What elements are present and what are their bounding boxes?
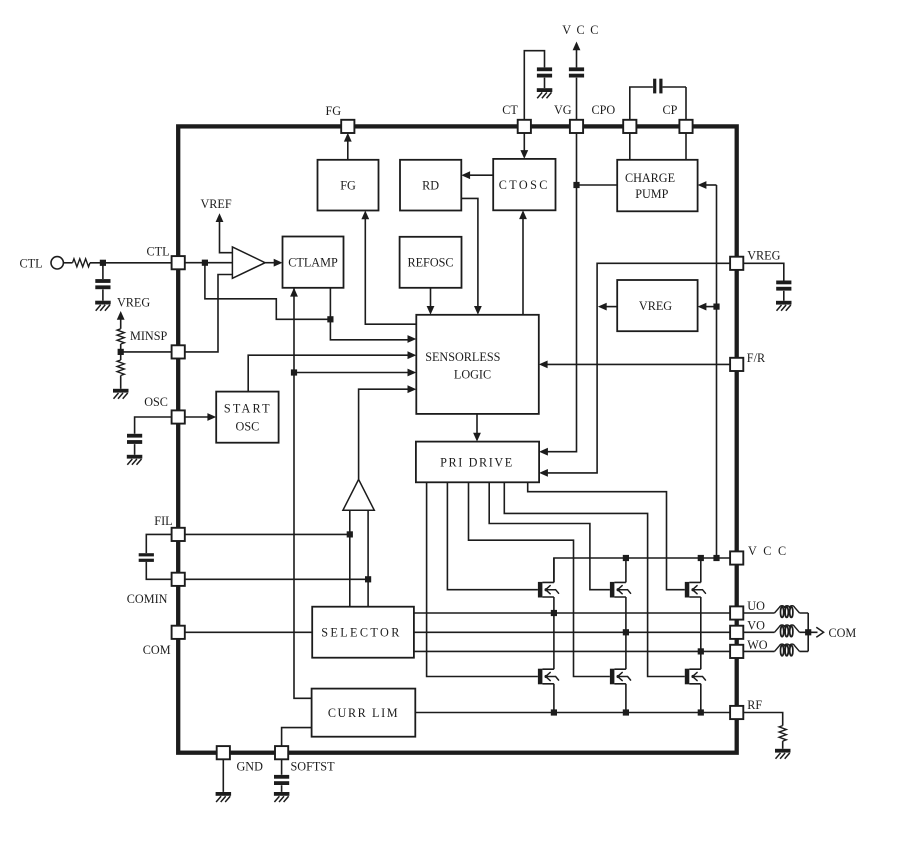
wire WO to coil <box>743 650 809 652</box>
wire CTL cap stem <box>102 263 104 279</box>
svg-text:OSC: OSC <box>236 420 260 434</box>
svg-text:FG: FG <box>340 178 356 192</box>
wire gate A (Q3 high) <box>528 482 685 589</box>
wire REFOSC to SENSORLESS <box>427 288 435 315</box>
wire riser to CHARGE PUMP <box>698 181 717 189</box>
wire CT external <box>524 51 544 121</box>
block VREG U7 <box>617 280 697 331</box>
wire Q1 to UO <box>553 597 555 613</box>
wire comparator to SENSORLESS <box>359 385 417 479</box>
junction CTL <box>202 260 208 266</box>
svg-text:WO: WO <box>747 638 768 652</box>
label MINSP <box>130 329 167 343</box>
ground OSC <box>127 455 143 465</box>
pin FG <box>341 120 354 133</box>
wire WO to Q6 <box>700 651 702 669</box>
pin VCC <box>730 551 743 564</box>
wire VREG pin net <box>539 263 730 477</box>
block CURR LIM U12 <box>312 689 416 737</box>
svg-text:V C C: V C C <box>562 23 599 37</box>
label CP <box>663 103 678 117</box>
svg-text:VG: VG <box>554 103 572 117</box>
ground GND <box>216 792 232 802</box>
block FG U1 <box>318 160 379 211</box>
wire CPO to CHARGE PUMP <box>629 133 631 160</box>
wire buffer to CTLAMP <box>265 259 282 267</box>
transistor Q2 high-side <box>610 582 631 598</box>
svg-text:SENSORLESS: SENSORLESS <box>425 350 500 364</box>
wire feedback to SENSORLESS <box>294 369 416 377</box>
pin COM <box>172 626 185 639</box>
wire Q2 to VO <box>625 597 627 632</box>
svg-text:CTL: CTL <box>147 245 170 259</box>
svg-text:CTL: CTL <box>20 257 43 271</box>
transistor Q5 low-side <box>610 669 631 685</box>
pin CT <box>518 120 531 133</box>
pin MINSP <box>172 345 185 358</box>
junction riser VCC rail <box>713 555 719 561</box>
block SENSORLESS LOGIC U8 <box>416 315 539 414</box>
wire FG to pin <box>344 133 352 160</box>
wire MINSP to buffer <box>185 275 233 352</box>
label GND <box>237 760 264 774</box>
label CPO <box>592 103 616 117</box>
wire RF res to ground <box>782 741 784 749</box>
block START OSC U9 <box>216 392 278 443</box>
label VREG left <box>117 296 150 310</box>
svg-text:MINSP: MINSP <box>130 329 167 343</box>
label COMIN <box>127 592 168 606</box>
wire SOFTST external <box>281 759 283 775</box>
svg-text:CTOSC: CTOSC <box>499 178 550 192</box>
wire Q3 to WO <box>700 597 702 651</box>
label RF <box>747 698 762 712</box>
capacitor CTL <box>95 279 110 289</box>
block CTLAMP U5 <box>283 237 344 288</box>
label CTL input <box>20 257 43 271</box>
label COM left <box>143 643 171 657</box>
label VO <box>747 619 765 633</box>
wire VG cap to pin <box>576 78 578 121</box>
wire SOFTST to CURR LIM <box>282 728 312 747</box>
junction MINSP <box>118 349 124 355</box>
transistor Q6 low-side <box>685 669 706 685</box>
svg-text:CPO: CPO <box>592 103 616 117</box>
wire VO to Q5 <box>625 632 627 669</box>
wire RD to SENSORLESS <box>461 198 482 314</box>
node COM arrow <box>816 627 823 637</box>
junction COMIN <box>365 576 371 582</box>
pin CPO <box>623 120 636 133</box>
capacitor OSC <box>127 434 142 444</box>
wire CP up <box>663 87 686 120</box>
power VREG arrow MINSP <box>117 311 125 329</box>
wire CTL cap to ground <box>102 289 104 300</box>
wire RF rail <box>415 712 730 714</box>
wire CTL resistor to pin <box>90 262 172 264</box>
power VREF arrow <box>216 213 233 253</box>
label WO <box>747 638 768 652</box>
svg-text:PUMP: PUMP <box>635 187 668 201</box>
svg-text:VO: VO <box>747 619 765 633</box>
svg-text:SOFTST: SOFTST <box>291 760 336 774</box>
label VCC top <box>562 23 599 37</box>
wire GND external <box>222 759 224 792</box>
wire UO to Q4 <box>553 613 555 669</box>
svg-text:CURR LIM: CURR LIM <box>328 706 399 720</box>
resistor CTL <box>73 259 91 267</box>
label VREF <box>201 197 232 211</box>
wire OSC external <box>135 417 173 434</box>
junction RF c2 <box>623 709 629 715</box>
pin CTL <box>172 256 185 269</box>
svg-text:VREF: VREF <box>201 197 232 211</box>
wire WO net <box>414 650 730 652</box>
ground SOFTST <box>274 792 290 802</box>
op-amp buffer A1 <box>232 247 265 278</box>
svg-text:V C C: V C C <box>748 544 788 558</box>
wire COMIN external <box>146 562 172 579</box>
wire comparator input right <box>367 510 369 606</box>
wire RF external <box>743 713 783 726</box>
wire VREG block output <box>598 303 617 311</box>
junction RF c3 <box>698 709 704 715</box>
junction riser VREG <box>713 304 719 310</box>
wire COMIN net <box>185 578 368 580</box>
transistor Q4 low-side <box>538 669 559 685</box>
svg-text:CP: CP <box>663 103 678 117</box>
block REFOSC U6 <box>400 237 462 288</box>
svg-text:RF: RF <box>747 698 762 712</box>
ground RF <box>775 749 791 759</box>
pin RF <box>730 706 743 719</box>
label VCC right <box>748 544 788 558</box>
wire UO to coil <box>743 612 809 614</box>
wire FIL external <box>146 534 172 553</box>
capacitor FIL-COMIN <box>139 553 154 562</box>
ground CTL <box>95 301 111 311</box>
wire OSC pin to START OSC <box>185 413 216 421</box>
pin SOFTST <box>275 746 288 759</box>
pin UO <box>730 606 743 619</box>
block SELECTOR U11 <box>312 607 414 658</box>
wire VCC to Q1 top <box>553 558 555 582</box>
junction RF c1 <box>551 709 557 715</box>
block CHARGE PUMP U4 <box>617 160 697 212</box>
wire UO net <box>414 612 730 614</box>
wire VREG external <box>743 263 784 280</box>
inductor VO coil <box>775 625 800 637</box>
junction VCC c3 <box>698 555 704 561</box>
svg-text:START: START <box>224 402 272 416</box>
pin CP <box>679 120 692 133</box>
pin FIL <box>172 528 185 541</box>
wire MINSP junction <box>121 344 173 360</box>
wire VCC to Q3 top <box>700 558 702 582</box>
wire gate B (Q6 low) <box>504 482 685 676</box>
wire gate E (Q1 high) <box>447 482 538 589</box>
wire gate F (Q4 low) <box>427 482 538 676</box>
wire START OSC to SENSORLESS <box>248 351 416 391</box>
junction VG charge pump <box>573 182 579 188</box>
junction WO column <box>698 648 704 654</box>
wire comparator input left <box>349 510 351 606</box>
svg-text:CHARGE: CHARGE <box>625 171 675 185</box>
wire SOFTST cap to ground <box>281 785 283 792</box>
wire CTLAMP bottom tap <box>330 288 416 343</box>
ground MINSP <box>113 389 129 399</box>
capacitor VCC/VG <box>569 67 584 77</box>
junction UO column <box>551 610 557 616</box>
block CTOSC U3 <box>493 159 555 210</box>
pin F/R <box>730 358 743 371</box>
svg-text:F/R: F/R <box>747 351 766 365</box>
pin WO <box>730 645 743 658</box>
svg-text:CT: CT <box>502 103 518 117</box>
svg-text:REFOSC: REFOSC <box>407 255 453 269</box>
wire SENSORLESS to CTOSC <box>519 210 527 314</box>
capacitor CP-CPO <box>653 79 662 94</box>
wire COM bus <box>808 613 817 651</box>
wire gate C (Q2 high) <box>489 482 610 589</box>
svg-text:LOGIC: LOGIC <box>454 368 491 382</box>
wire Q5 to RF rail <box>625 684 627 713</box>
wire FIL net <box>185 533 350 535</box>
svg-text:VREG: VREG <box>117 296 150 310</box>
pin GND <box>217 746 230 759</box>
junction feedback to logic <box>291 369 297 375</box>
label CTL pin <box>147 245 170 259</box>
wire VG net <box>539 133 576 456</box>
wire SENSORLESS to FG <box>361 211 416 325</box>
label F/R <box>747 351 766 365</box>
label CT <box>502 103 518 117</box>
wire gate D (Q5 low) <box>469 482 610 676</box>
inductor UO coil <box>775 606 800 618</box>
wire riser to VREG block <box>698 303 717 311</box>
label FIL <box>154 514 172 528</box>
svg-text:CTLAMP: CTLAMP <box>288 255 338 269</box>
wire CPO up <box>630 87 653 120</box>
svg-text:FG: FG <box>326 104 342 118</box>
junction FIL <box>347 531 353 537</box>
label OSC <box>144 395 168 409</box>
transistor Q3 high-side <box>685 582 706 598</box>
wire MINSP res to ground <box>120 376 122 389</box>
capacitor VREG <box>776 281 791 291</box>
IC boundary <box>178 126 737 752</box>
power VCC arrow <box>573 42 581 68</box>
pin VREG <box>730 257 743 270</box>
ground CT <box>537 88 553 98</box>
wire VCC to Q2 top <box>625 558 627 582</box>
wire VO to coil <box>743 631 809 633</box>
label UO <box>747 599 765 613</box>
wire VO net <box>414 631 730 633</box>
wire VG to CHARGE PUMP <box>577 184 618 186</box>
pin COMIN <box>172 573 185 586</box>
svg-text:VREG: VREG <box>639 299 672 313</box>
capacitor SOFTST <box>274 775 289 785</box>
transistor Q1 high-side <box>538 582 559 598</box>
label FG pin <box>326 104 342 118</box>
block PRI DRIVE U10 <box>416 442 539 483</box>
svg-text:SELECTOR: SELECTOR <box>321 626 402 640</box>
wire CTOSC to RD <box>461 171 493 179</box>
junction VCC c2 <box>623 555 629 561</box>
wire VREG cap to ground <box>783 291 785 301</box>
wire VCC rail <box>554 558 730 582</box>
capacitor CT <box>537 67 552 77</box>
wire Q4 to RF rail <box>553 684 555 713</box>
wire CTL terminal to resistor <box>63 262 72 264</box>
svg-text:PRI DRIVE: PRI DRIVE <box>440 455 514 469</box>
resistor MINSP lower <box>117 360 124 376</box>
wire Q6 to RF rail <box>700 684 702 713</box>
pin VO <box>730 626 743 639</box>
wire CTL pin to buffer <box>185 262 233 264</box>
svg-text:VREG: VREG <box>747 249 780 263</box>
junction VO column <box>623 629 629 635</box>
svg-text:COMIN: COMIN <box>127 592 168 606</box>
junction COM bus <box>805 629 811 635</box>
label COM right <box>829 626 857 640</box>
wire COM to SELECTOR <box>185 631 312 633</box>
comparator A2 <box>343 479 374 510</box>
ground VREG <box>776 301 792 311</box>
svg-text:FIL: FIL <box>154 514 172 528</box>
wire CT pin to CTOSC <box>520 133 528 159</box>
label VREG pin <box>747 249 780 263</box>
svg-text:COM: COM <box>829 626 857 640</box>
wire CT cap to ground <box>544 78 546 89</box>
junction CTLAMP tap <box>327 316 333 322</box>
pin OSC <box>172 410 185 423</box>
wire CP to CHARGE PUMP <box>685 133 687 160</box>
svg-text:GND: GND <box>237 760 264 774</box>
resistor MINSP upper <box>117 329 124 344</box>
label SOFTST <box>291 760 336 774</box>
resistor RF <box>779 726 786 742</box>
terminal CTL <box>51 257 63 269</box>
svg-text:RD: RD <box>422 178 439 192</box>
inductor WO coil <box>775 644 800 656</box>
wire CTL staircase <box>205 263 331 320</box>
junction CTL external <box>100 260 106 266</box>
svg-text:OSC: OSC <box>144 395 168 409</box>
svg-text:UO: UO <box>747 599 765 613</box>
wire SENSORLESS to PRI DRIVE <box>473 414 481 442</box>
label VG <box>554 103 572 117</box>
wire F/R net <box>539 361 730 369</box>
pin VG <box>570 120 583 133</box>
svg-text:COM: COM <box>143 643 171 657</box>
block RD U2 <box>400 160 461 211</box>
wire OSC cap to ground <box>134 444 136 455</box>
wire CTLAMP feedback net <box>290 288 312 699</box>
wire VCC riser <box>716 185 718 558</box>
